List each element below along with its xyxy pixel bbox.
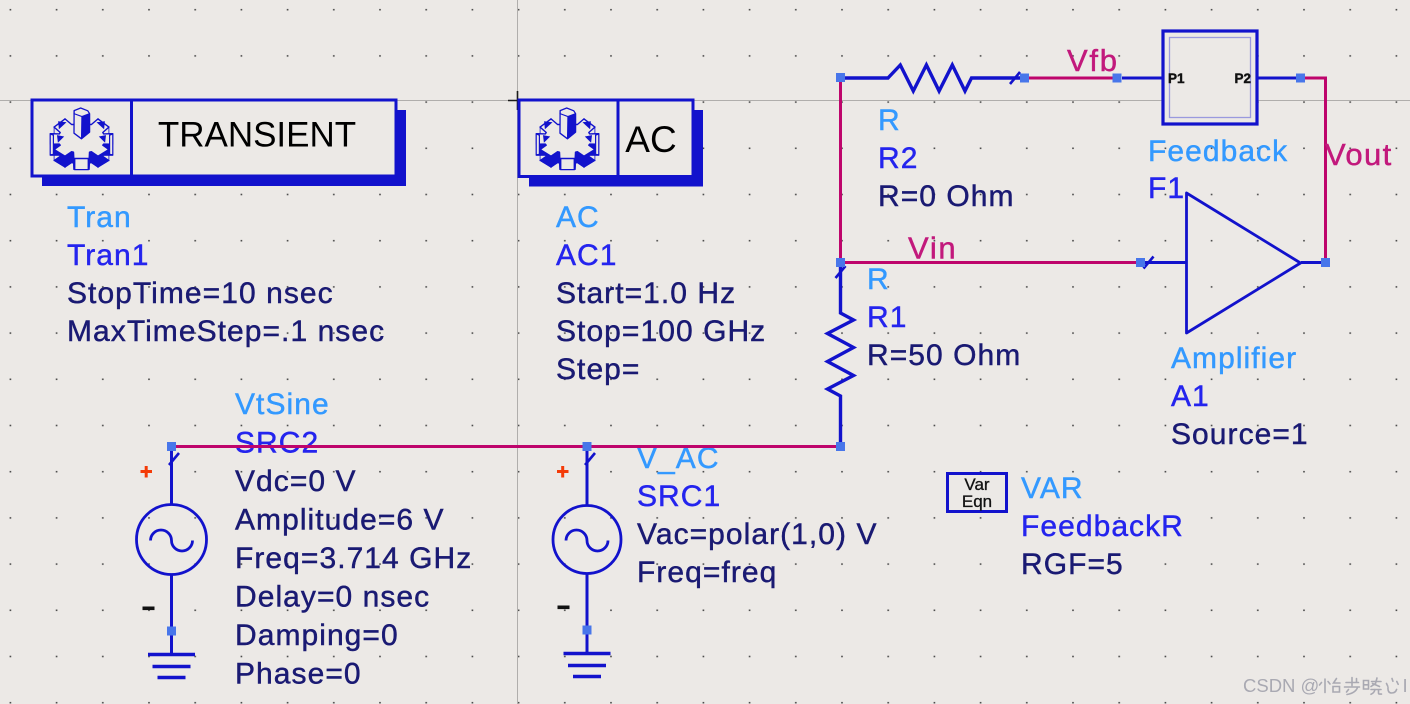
- feedback block F1 (two-port box): [1122, 31, 1300, 124]
- svg-text:VtSine: VtSine: [235, 388, 330, 421]
- wire: net Vfb magenta segment: [1025, 77, 1117, 80]
- label VtSine (type): [235, 388, 330, 421]
- label FeedbackR (instance): [1021, 510, 1184, 543]
- parameter Phase: [235, 658, 362, 691]
- svg-text:Phase=0: Phase=0: [235, 658, 362, 691]
- svg-text:Tran: Tran: [67, 201, 132, 234]
- resistor R1 (vertical zigzag with leads): [828, 263, 854, 447]
- parameter Step: [556, 353, 640, 386]
- simulation controller box AC: [519, 100, 703, 187]
- label Feedback (type): [1148, 135, 1288, 168]
- parameter Freq: [235, 542, 472, 575]
- label Tran1 (instance name): [67, 239, 150, 272]
- svg-text:R: R: [878, 104, 901, 137]
- label SRC2 (instance): [235, 427, 319, 460]
- node: R2 right pin junction: [1020, 74, 1029, 83]
- net label Vfb: [1067, 43, 1119, 78]
- svg-text:Vfb: Vfb: [1067, 43, 1119, 78]
- parameter StopTime: [67, 277, 334, 310]
- label VAR (type): [1021, 472, 1084, 505]
- svg-text:R=50 Ohm: R=50 Ohm: [867, 339, 1021, 372]
- svg-text:R2: R2: [878, 142, 918, 175]
- node: feedback output junction: [1296, 74, 1305, 83]
- node: amplifier output junction: [1321, 258, 1330, 267]
- voltage source SRC2 VtSine (circle with sine): [137, 447, 207, 655]
- parameter R=0 Ohm: [878, 180, 1015, 213]
- svg-text:P2: P2: [1235, 71, 1252, 86]
- svg-text:Delay=0 nsec: Delay=0 nsec: [235, 581, 430, 614]
- parameter MaxTimeStep: [67, 315, 385, 348]
- plus polarity mark of SRC1: [557, 466, 569, 478]
- svg-text:VAR: VAR: [1021, 472, 1084, 505]
- label AC1 (instance name): [556, 239, 618, 272]
- parameter Damping: [235, 619, 399, 652]
- minus polarity mark of SRC2: [143, 607, 155, 611]
- voltage source SRC1 V_AC (circle with sine): [553, 447, 621, 654]
- label R (type of R2): [878, 104, 901, 137]
- svg-text:P1: P1: [1168, 71, 1185, 86]
- svg-text:Vdc=0 V: Vdc=0 V: [235, 465, 357, 498]
- wire: net Vin horizontal magenta segment: [841, 261, 1141, 264]
- svg-text:Step=: Step=: [556, 353, 640, 386]
- gear icon of AC controller: [536, 108, 599, 170]
- pin 1 tick of SRC2: [169, 453, 179, 465]
- wire: magenta bottom net from SRC2 to R1 bottom node: [172, 445, 841, 448]
- parameter Stop: [556, 315, 766, 348]
- node: SRC2 bottom junction: [167, 627, 176, 636]
- node: amplifier input junction: [1136, 258, 1145, 267]
- wire: net Vout magenta segment from feedback output down to amplifier output: [1303, 78, 1326, 263]
- label R1 (instance): [867, 301, 907, 334]
- svg-text:MaxTimeStep=.1 nsec: MaxTimeStep=.1 nsec: [67, 315, 385, 348]
- wire: magenta vertical left segment of feedback loop (R2 node down to Vin node): [839, 78, 842, 263]
- amplifier A1 (triangle symbol): [1145, 193, 1325, 333]
- svg-text:R1: R1: [867, 301, 907, 334]
- pin 1 tick of R1: [836, 266, 846, 278]
- svg-text:F1: F1: [1148, 172, 1185, 205]
- svg-text:Feedback: Feedback: [1148, 135, 1288, 168]
- svg-text:Stop=100 GHz: Stop=100 GHz: [556, 315, 766, 348]
- gear icon of TRANSIENT controller: [50, 108, 113, 170]
- node: SRC1 bottom junction: [583, 626, 592, 635]
- svg-text:Vac=polar(1,0) V: Vac=polar(1,0) V: [637, 518, 878, 551]
- node: R1 bottom junction: [836, 442, 845, 451]
- svg-text:I: I: [1403, 675, 1408, 696]
- svg-text:Source=1: Source=1: [1171, 418, 1309, 451]
- node: R2 left junction: [836, 73, 845, 82]
- svg-text:Damping=0: Damping=0: [235, 619, 399, 652]
- watermark CSDN: [1243, 675, 1408, 696]
- parameter Freq=freq: [637, 556, 777, 589]
- pin label P2: [1235, 71, 1252, 86]
- parameter Source=1: [1171, 418, 1309, 451]
- net label Vin: [908, 231, 957, 266]
- label V_AC (type): [637, 442, 720, 475]
- svg-text:Freq=3.714 GHz: Freq=3.714 GHz: [235, 542, 472, 575]
- svg-text:Eqn: Eqn: [962, 492, 992, 511]
- label R2 (instance): [878, 142, 918, 175]
- node: Vfb right junction: [1113, 74, 1122, 83]
- label R (type of R1): [867, 263, 890, 296]
- pin 1 tick of SRC1: [585, 453, 595, 465]
- net label Vout: [1325, 137, 1393, 172]
- svg-text:StopTime=10 nsec: StopTime=10 nsec: [67, 277, 334, 310]
- minus polarity mark of SRC1: [558, 606, 570, 610]
- node: SRC1 top junction on bottom net: [583, 442, 592, 451]
- svg-text:AC1: AC1: [556, 239, 618, 272]
- ground symbol of SRC2: [148, 655, 195, 678]
- svg-text:SRC2: SRC2: [235, 427, 319, 460]
- svg-text:Amplitude=6 V: Amplitude=6 V: [235, 504, 445, 537]
- ground symbol of SRC1: [564, 654, 611, 677]
- svg-text:CSDN @: CSDN @: [1243, 675, 1319, 696]
- plus polarity mark of SRC2: [141, 466, 153, 478]
- svg-text:AC: AC: [625, 119, 676, 160]
- simulation controller box TRANSIENT: [32, 100, 406, 186]
- parameter Start: [556, 277, 736, 310]
- label AC (component type): [556, 201, 600, 234]
- title AC: [625, 119, 676, 160]
- pin label P1: [1168, 71, 1185, 86]
- svg-text:Freq=freq: Freq=freq: [637, 556, 777, 589]
- svg-text:Vin: Vin: [908, 231, 957, 266]
- svg-text:SRC1: SRC1: [637, 480, 721, 513]
- parameter RGF=5: [1021, 548, 1124, 581]
- svg-text:R: R: [867, 263, 890, 296]
- pin 1 tick of amplifier input: [1144, 257, 1154, 269]
- svg-text:TRANSIENT: TRANSIENT: [158, 116, 356, 155]
- node: SRC2 top junction: [167, 442, 176, 451]
- svg-text:A1: A1: [1171, 380, 1210, 413]
- svg-text:R=0 Ohm: R=0 Ohm: [878, 180, 1015, 213]
- parameter R=50 Ohm: [867, 339, 1021, 372]
- title TRANSIENT: [158, 116, 356, 155]
- parameter Delay: [235, 581, 430, 614]
- svg-text:FeedbackR: FeedbackR: [1021, 510, 1184, 543]
- pin 1 tick of R2: [1010, 72, 1020, 84]
- parameter Vdc: [235, 465, 357, 498]
- svg-text:Amplifier: Amplifier: [1171, 342, 1297, 375]
- svg-text:Vout: Vout: [1325, 137, 1393, 172]
- label A1 (instance): [1171, 380, 1210, 413]
- parameter Amplitude: [235, 504, 445, 537]
- label SRC1 (instance): [637, 480, 721, 513]
- svg-text:AC: AC: [556, 201, 600, 234]
- svg-text:Start=1.0 Hz: Start=1.0 Hz: [556, 277, 736, 310]
- label Tran (component type): [67, 201, 132, 234]
- label Amplifier (type): [1171, 342, 1297, 375]
- svg-text:Tran1: Tran1: [67, 239, 150, 272]
- svg-text:RGF=5: RGF=5: [1021, 548, 1124, 581]
- variable equation block VarEqn: [948, 474, 1007, 512]
- parameter Vac: [637, 518, 878, 551]
- label F1 (instance): [1148, 172, 1185, 205]
- resistor R2 (horizontal zigzag with leads): [841, 65, 1022, 91]
- node: Vin/R1 top junction: [836, 258, 845, 267]
